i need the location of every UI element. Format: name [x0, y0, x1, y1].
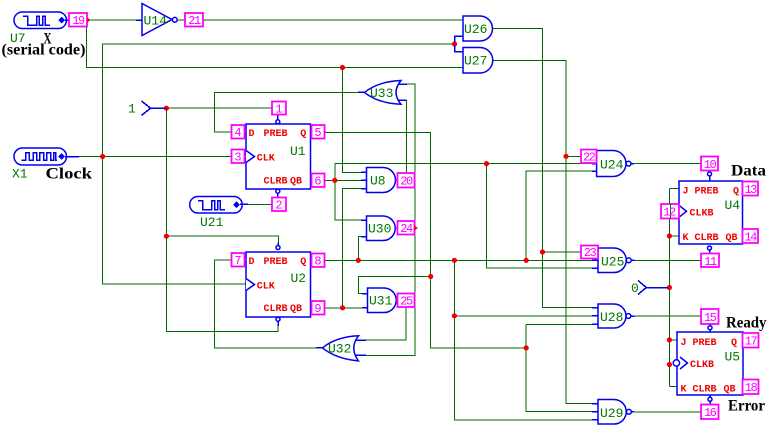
AND gate U27 — [463, 48, 493, 74]
svg-text:12: 12 — [663, 206, 676, 220]
wire net ZERO: vertical x669.4 with stubs to U4 J,K and U5 J,K — [669, 188, 679, 386]
wire net Q2: U28 input 2 — [454, 315, 592, 317]
pin box 24 — [396, 221, 415, 236]
svg-text:U33: U33 — [370, 86, 393, 101]
AND gate U30 — [361, 216, 395, 241]
OR gate U33 (mirrored, output left) — [358, 81, 407, 105]
junction dot Q1 rail x525.5 — [524, 345, 529, 350]
svg-text:8: 8 — [314, 255, 321, 269]
junction dot Clock/U26/U27 stubs — [452, 41, 457, 46]
svg-text:0: 0 — [631, 281, 639, 296]
wire net U27out: branch to box22 — [566, 155, 581, 157]
svg-text:U27: U27 — [464, 54, 487, 69]
svg-text:U26: U26 — [464, 22, 487, 37]
pin box 9 — [311, 301, 325, 316]
junction dot ONE at U2 branch — [164, 234, 169, 239]
svg-text:CLRB: CLRB — [264, 177, 288, 188]
junction dot Q2/U30 branch — [356, 258, 361, 263]
wire net U26out: branch to box23 — [543, 251, 582, 253]
svg-text:Ready: Ready — [726, 315, 767, 332]
pin box 8 — [311, 254, 325, 269]
wire net Clock: vertical x102.6 up to y44 rail to U26/U27 stubs — [103, 44, 455, 157]
junction dot ZERO/U4 K — [667, 233, 672, 238]
wire net Clock: vertical down to U2 CLK — [103, 157, 246, 285]
wire net U33 input A long vertical to U32 input B — [364, 84, 415, 355]
wire net Q2: vertical x454.4 to U28 in2 and U29 in3 — [454, 260, 592, 420]
svg-text:7: 7 — [234, 254, 241, 268]
NAND gate U24 — [592, 151, 634, 177]
pin box 21 — [185, 13, 203, 28]
wire net QB2: branch up x342.6 to U8 input 3 — [343, 189, 361, 308]
wire net U29out to box16 — [633, 411, 701, 413]
svg-text:11: 11 — [704, 255, 717, 269]
signal generator U7 — [14, 12, 69, 29]
svg-text:U25: U25 — [601, 255, 624, 270]
wire net U32out to U2 D box7 — [215, 260, 316, 348]
svg-text:QB: QB — [290, 304, 302, 315]
svg-text:PREB: PREB — [695, 186, 719, 197]
pin box 20 — [396, 173, 415, 189]
wire net Q1: branch to U31 input 1 — [358, 277, 430, 294]
svg-text:17: 17 — [745, 335, 758, 349]
junction dot U26out/box23 — [540, 249, 545, 254]
svg-text:24: 24 — [400, 222, 413, 236]
wire net U26out: right, down x542.5, to U28 input 1 — [493, 29, 592, 308]
wire net U25out to box11 — [634, 259, 701, 261]
svg-text:10: 10 — [704, 158, 717, 172]
svg-text:CLK: CLK — [257, 154, 275, 165]
wire net Q2: branch up x526.7 to U24 input 3 — [526, 171, 596, 260]
svg-text:9: 9 — [314, 302, 321, 316]
svg-text:U14: U14 — [144, 14, 168, 29]
wire net QB1: branch x486.5 down to U25 input 3 — [487, 164, 593, 268]
wire net Q1: U28 input 3 — [526, 323, 592, 325]
svg-text:QB: QB — [290, 177, 302, 188]
wire net QB1: box6 to U8 input 2 — [325, 179, 362, 181]
signal generator X1 Clock — [14, 148, 79, 165]
junction dot U27out/box22 — [563, 154, 568, 159]
pin box 4 — [232, 125, 247, 140]
svg-text:5: 5 — [314, 126, 321, 140]
svg-text:J: J — [683, 186, 689, 197]
svg-text:21: 21 — [188, 14, 201, 28]
svg-text:18: 18 — [745, 381, 758, 395]
pin box 7 — [232, 253, 247, 268]
wire net QB1: vertical x334.8 and U30 input 1 — [335, 164, 361, 220]
svg-text:Q: Q — [733, 186, 739, 197]
junction dot QB1 at box6 — [332, 178, 337, 183]
flip-flop U5 — [673, 324, 743, 405]
svg-text:Error: Error — [728, 398, 765, 415]
AND gate U26 — [455, 16, 493, 52]
wire net ONE: connector 1 to box1 — [165, 107, 272, 109]
svg-text:22: 22 — [583, 151, 596, 165]
svg-text:K: K — [681, 384, 687, 395]
pin box 3 — [232, 150, 247, 165]
NAND gate U29 — [592, 400, 634, 425]
NAND gate U25 — [592, 248, 635, 273]
wire net U27out: right, down x566, to U29 input 1 — [493, 60, 592, 403]
connector 1 — [128, 101, 166, 117]
svg-text:U28: U28 — [600, 310, 623, 325]
svg-text:CLRB: CLRB — [264, 304, 288, 315]
pin box 22 — [581, 150, 597, 165]
svg-text:U31: U31 — [369, 294, 393, 309]
inverter U14 — [136, 4, 177, 36]
wire net X serial: branch down x342.5 to U8 input 1 — [343, 68, 362, 173]
svg-text:1: 1 — [275, 102, 282, 116]
svg-text:U4: U4 — [725, 198, 741, 213]
pin box 23 — [581, 246, 598, 261]
wire net Q1: box5 right, down x430.7, rail y348 — [325, 132, 526, 348]
signal generator U21 — [190, 197, 248, 214]
svg-text:23: 23 — [584, 246, 597, 260]
svg-text:U5: U5 — [725, 350, 741, 365]
pin box 19 — [69, 13, 87, 28]
svg-text:4: 4 — [234, 126, 241, 140]
svg-text:6: 6 — [314, 175, 321, 189]
flip-flop U2 — [246, 243, 311, 327]
svg-text:Clock: Clock — [46, 166, 93, 183]
junction dot QB1/U25 branch — [484, 161, 489, 166]
svg-text:CLK: CLK — [257, 282, 275, 293]
svg-text:3: 3 — [234, 151, 241, 165]
wire net Q1: vertical x525.5 to U28 in3 and U29 in2 — [526, 324, 592, 411]
svg-text:U29: U29 — [600, 406, 623, 421]
svg-text:CLRB: CLRB — [693, 384, 717, 395]
svg-text:K: K — [683, 233, 689, 244]
wire net ONE: vertical x166.4 down, to U2 preset top and U2 clear bottom — [166, 108, 278, 331]
svg-text:Q: Q — [300, 257, 306, 268]
pin box 6 — [311, 174, 325, 189]
junction dot ZERO/U5 CLKB — [667, 362, 672, 367]
svg-text:19: 19 — [72, 14, 85, 28]
wire net NOTX: U14 bubble to box21 — [177, 19, 185, 21]
pin box 10 — [701, 157, 718, 172]
wire net U28out to box15 — [635, 315, 702, 317]
svg-text:2: 2 — [275, 199, 282, 213]
probe arrow at box 19 — [87, 17, 91, 22]
AND gate U8 — [361, 168, 396, 193]
wire net Q2: branch up to U30 input 2 — [358, 237, 361, 261]
wire net NOTX: box21 to U26 input A — [203, 19, 463, 21]
svg-text:PREB: PREB — [693, 338, 717, 349]
svg-text:1: 1 — [128, 102, 136, 117]
junction dot ZERO/connector0 — [667, 285, 672, 290]
flip-flop U1 — [246, 115, 311, 198]
svg-text:14: 14 — [744, 230, 757, 244]
probe arrow at box 24 — [414, 225, 418, 230]
svg-text:13: 13 — [744, 183, 757, 197]
svg-text:D: D — [249, 129, 255, 140]
svg-text:U24: U24 — [600, 158, 624, 173]
junction dot Q2/U28 in2 — [452, 313, 457, 318]
svg-text:QB: QB — [724, 384, 736, 395]
svg-text:U30: U30 — [368, 222, 391, 237]
pin box 5 — [311, 125, 327, 140]
AND gate U31 — [362, 288, 396, 313]
wire net U31out: box25 down to U32 input A — [364, 307, 406, 340]
junction dot ZERO/U5 J — [667, 337, 672, 342]
connector 0 — [631, 281, 668, 297]
wire net QB2: box9 to U31 input 2 — [325, 307, 363, 309]
svg-text:CLKB: CLKB — [690, 360, 714, 371]
pin box 2 — [272, 198, 286, 213]
pin box 16 — [701, 405, 719, 421]
wire net ONE: branch to U2 PREB top pin — [166, 236, 278, 245]
svg-text:CLRB: CLRB — [695, 233, 719, 244]
junction dot ONE at connector — [164, 106, 169, 111]
svg-text:X1: X1 — [12, 167, 28, 182]
junction dot Q2/U24 branch — [524, 258, 529, 263]
svg-text:16: 16 — [704, 406, 717, 420]
svg-text:Data: Data — [731, 163, 766, 180]
wire net Clock: X1 to box3 — [79, 156, 232, 158]
wire net U8out: box20 up to U33 input B — [402, 100, 407, 173]
flip-flop U4 — [679, 171, 743, 254]
svg-text:Q: Q — [731, 338, 737, 349]
NAND gate U28 — [592, 304, 635, 328]
wire net Q2: box8 rail y260.3 to U25 input 2 — [325, 259, 593, 261]
wire net U33out to U1 D box4 — [214, 92, 358, 132]
svg-text:CLKB: CLKB — [690, 208, 714, 219]
svg-text:U1: U1 — [290, 144, 306, 159]
junction dot Q1/U31 branch — [428, 274, 433, 279]
wire net U24out to box10 — [633, 163, 701, 165]
pin box 11 — [701, 254, 719, 269]
svg-text:U2: U2 — [291, 271, 307, 286]
pin box 25 — [396, 294, 414, 309]
svg-text:15: 15 — [704, 311, 717, 325]
wire net QB1: rail y163.6 to U24 input 2 — [335, 163, 597, 165]
pin box 17 — [743, 333, 759, 349]
junction dot X-rail/U8 branch — [340, 65, 345, 70]
svg-text:QB: QB — [726, 233, 738, 244]
pin box 13 — [743, 182, 759, 197]
svg-text:Q: Q — [300, 129, 306, 140]
pin box 12 — [661, 204, 679, 220]
svg-text:U21: U21 — [200, 215, 224, 230]
pin box 18 — [743, 380, 759, 396]
pin box 15 — [701, 309, 719, 325]
wire net U21 to box2 — [248, 203, 272, 205]
svg-text:20: 20 — [400, 175, 413, 189]
pin box 14 — [743, 229, 759, 244]
svg-text:PREB: PREB — [264, 129, 288, 140]
junction dot QB2/U8 branch — [340, 305, 345, 310]
svg-text:U32: U32 — [328, 342, 351, 357]
svg-text:U8: U8 — [370, 174, 386, 189]
junction dot Clock at x102.6 — [100, 154, 105, 159]
junction dot Q2 rail x454.4 — [452, 258, 457, 263]
svg-text:PREB: PREB — [264, 257, 288, 268]
wire net X serial: box19 down and right rail y67.5 to U27 input B — [87, 27, 464, 68]
svg-text:J: J — [681, 338, 687, 349]
pin box 1 — [272, 102, 286, 117]
svg-text:D: D — [249, 257, 255, 268]
svg-text:25: 25 — [400, 295, 413, 309]
svg-text:(serial code): (serial code) — [2, 42, 86, 59]
wire net X serial: U7/box19 to U14 input — [91, 19, 142, 21]
OR gate U32 (mirrored, output left) — [316, 336, 366, 361]
